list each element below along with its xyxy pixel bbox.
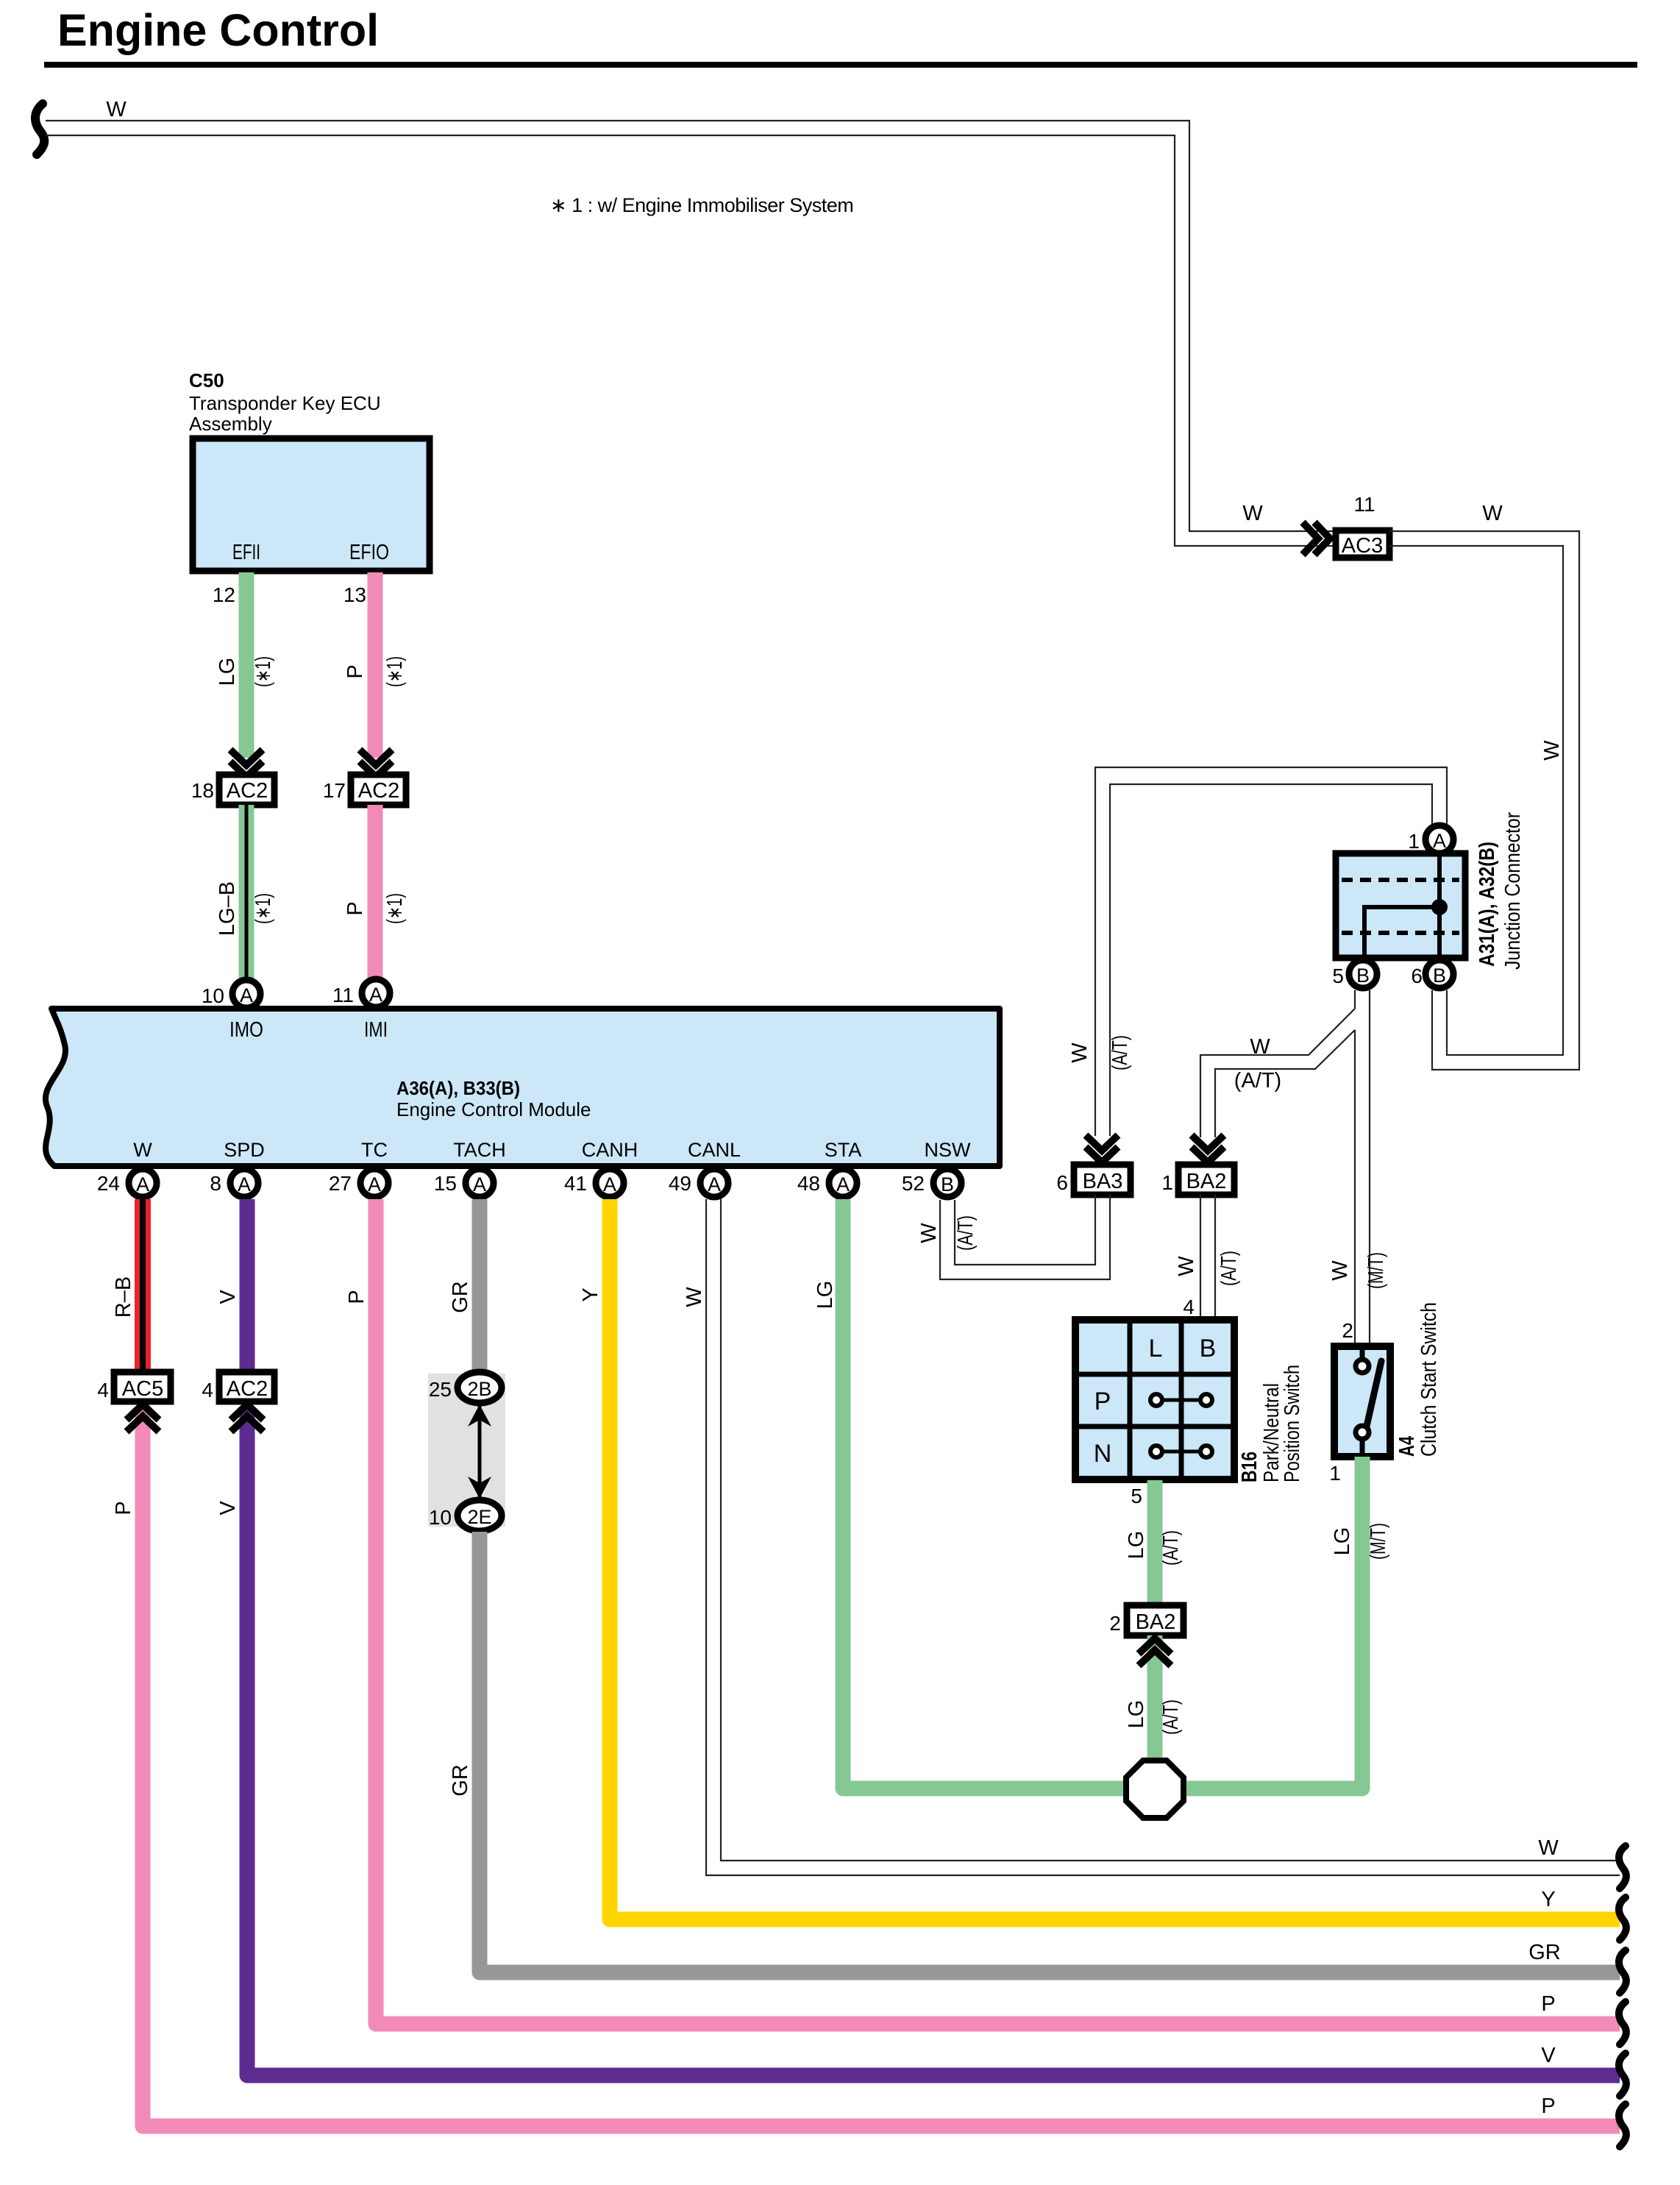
svg-text:C50: C50 — [189, 369, 224, 391]
B16 contact N row — [1150, 1446, 1212, 1457]
break squiggle on bottom Y wire — [1619, 1897, 1626, 1940]
connector AC2 (pin 4) — [219, 1372, 274, 1401]
svg-text:48: 48 — [797, 1172, 820, 1195]
svg-text:A: A — [1433, 830, 1446, 852]
svg-text:LG: LG — [814, 1281, 837, 1310]
svg-text:W: W — [1482, 502, 1503, 525]
svg-text:A36(A), B33(B): A36(A), B33(B) — [396, 1077, 520, 1099]
chevron into AC2 (pin 17) — [360, 750, 392, 777]
svg-text:(A/T): (A/T) — [1108, 1035, 1132, 1070]
svg-text:W: W — [133, 1139, 152, 1161]
svg-text:Position Switch: Position Switch — [1281, 1365, 1304, 1482]
svg-text:2: 2 — [1109, 1612, 1121, 1635]
instrument panel junction block shading — [428, 1374, 505, 1527]
junction connector internal junction dot — [1431, 899, 1448, 915]
svg-text:Clutch Start Switch: Clutch Start Switch — [1417, 1302, 1441, 1457]
svg-text:EFIO: EFIO — [349, 541, 389, 564]
wire W: branch from 5B drop to BA2 (lower line) — [1215, 1030, 1355, 1137]
connector AC2 (pin 17) — [351, 775, 406, 805]
ECM pin 24A circle — [129, 1169, 157, 1197]
svg-text:AC2: AC2 — [227, 779, 268, 803]
svg-text:BA3: BA3 — [1083, 1170, 1123, 1193]
svg-text:LG–B: LG–B — [216, 881, 239, 936]
svg-text:A: A — [369, 984, 382, 1006]
svg-text:27: 27 — [329, 1172, 352, 1195]
svg-text:LG: LG — [216, 658, 239, 686]
wire W: AC3 to junction 6B (inner line) — [1389, 546, 1563, 1055]
chevron out of AC2 (pin 4) — [231, 1404, 263, 1432]
svg-text:W: W — [1242, 502, 1263, 525]
wire R-B from ECM pin 24 to AC5 (red) — [135, 1199, 151, 1371]
chevron out of AC5 — [127, 1404, 159, 1432]
svg-text:Transponder Key ECU: Transponder Key ECU — [189, 392, 381, 414]
wire W: AC3 to junction 6B (outer line) — [1389, 531, 1579, 1070]
wire LG from ECM pin 48 (STA) to octagon splice — [843, 1199, 1125, 1788]
svg-text:W: W — [1538, 1836, 1559, 1860]
C50 Transponder Key ECU box — [193, 438, 430, 571]
svg-text:(∗1): (∗1) — [252, 656, 275, 687]
ECM pin 15A circle — [466, 1169, 494, 1197]
svg-text:(∗1): (∗1) — [252, 893, 275, 924]
ECM pin 52B circle — [933, 1169, 961, 1197]
svg-text:8: 8 — [210, 1172, 221, 1195]
svg-text:W: W — [1250, 1035, 1270, 1059]
svg-text:IMI: IMI — [364, 1018, 388, 1042]
chevron into AC3 — [1303, 522, 1330, 555]
svg-text:P: P — [112, 1501, 135, 1515]
svg-text:(A/T): (A/T) — [954, 1215, 978, 1251]
svg-text:4: 4 — [1183, 1296, 1195, 1318]
svg-text:A: A — [136, 1173, 149, 1195]
svg-text:N: N — [1094, 1440, 1112, 1468]
svg-text:4: 4 — [202, 1379, 213, 1401]
svg-text:P: P — [1541, 2095, 1555, 2118]
svg-text:11: 11 — [332, 984, 354, 1006]
wire W from ECM pin 49 (CANL) to bottom edge (inner line) — [721, 1199, 1620, 1861]
connector AC3 — [1336, 530, 1389, 558]
svg-text:(A/T): (A/T) — [1159, 1699, 1183, 1735]
svg-text:CANH: CANH — [582, 1139, 638, 1161]
wire P from EFIO pin 13 — [368, 572, 383, 758]
ECM pin 10A circle — [232, 980, 260, 1008]
svg-text:B: B — [1433, 964, 1446, 987]
break squiggle on bottom P (TC) wire — [1619, 2002, 1626, 2044]
svg-text:10: 10 — [429, 1506, 452, 1529]
svg-text:10: 10 — [202, 984, 224, 1007]
wire W: battery feed run to AC3 (inner line) — [46, 135, 1334, 546]
svg-text:Y: Y — [1541, 1888, 1555, 1911]
svg-text:52: 52 — [902, 1172, 925, 1195]
wire V from AC2 to bottom edge — [247, 1410, 1620, 2075]
svg-text:18: 18 — [191, 779, 214, 802]
svg-text:AC5: AC5 — [122, 1377, 163, 1401]
svg-text:W: W — [1540, 740, 1564, 761]
wire W: BA2 to B16 pin 4 (left line) — [1200, 1195, 1201, 1320]
ECM pin 8A circle — [230, 1169, 258, 1197]
svg-text:TACH: TACH — [453, 1139, 506, 1161]
svg-text:A: A — [473, 1173, 486, 1195]
svg-text:V: V — [1541, 2044, 1556, 2067]
wire LG from B16 pin 5 to BA2 — [1147, 1480, 1163, 1605]
connector BA2 (lower) — [1127, 1605, 1184, 1635]
connector AC2 (pin 18) — [219, 775, 274, 805]
svg-text:GR: GR — [1528, 1941, 1561, 1964]
B16 contact P row — [1150, 1394, 1212, 1406]
svg-text:B: B — [1356, 964, 1370, 987]
connector BA2 (upper) — [1178, 1165, 1234, 1195]
wire W: junction 5B down to clutch switch pin 2 (right line) — [1369, 990, 1370, 1345]
svg-text:6: 6 — [1056, 1171, 1068, 1194]
svg-text:12: 12 — [213, 583, 235, 606]
wire GR from 2E to bottom edge — [480, 1532, 1620, 1972]
wire W: junction 1A to BA3 (inner line) — [1110, 784, 1432, 1136]
break squiggle on bottom W wire — [1619, 1846, 1626, 1889]
arrowhead up into 2B — [468, 1404, 491, 1427]
svg-text:W: W — [1068, 1042, 1092, 1063]
svg-text:5: 5 — [1131, 1485, 1142, 1507]
svg-text:L: L — [1149, 1335, 1163, 1362]
svg-text:Y: Y — [579, 1287, 602, 1301]
wire LG from EFII pin 12 — [239, 572, 255, 758]
ECM pin 11A circle — [362, 979, 390, 1007]
wire P from AC5 to bottom edge (pink) — [143, 1410, 1620, 2126]
svg-text:(M/T): (M/T) — [1367, 1523, 1390, 1560]
ECM A36(A),B33(B) Engine Control Module box with torn left edge — [46, 1009, 1000, 1166]
svg-text:∗ 1 : w/ Engine Immobiliser Sy: ∗ 1 : w/ Engine Immobiliser System — [550, 194, 853, 216]
ECM pin 48A circle — [829, 1169, 857, 1197]
wire LG from A4 pin 1 to octagon splice — [1184, 1457, 1362, 1788]
svg-text:A: A — [603, 1173, 616, 1195]
svg-text:Assembly: Assembly — [189, 413, 272, 435]
svg-text:2E: 2E — [467, 1506, 491, 1528]
wire LG from BA2 (lower) to octagon splice — [1147, 1635, 1163, 1762]
svg-text:GR: GR — [449, 1281, 472, 1313]
svg-text:(A/T): (A/T) — [1159, 1530, 1183, 1566]
connector oval 2E — [458, 1500, 502, 1531]
wire W: junction 1A to BA3 (outer line) — [1095, 767, 1447, 1136]
svg-text:5: 5 — [1332, 964, 1344, 987]
svg-text:AC2: AC2 — [227, 1377, 268, 1401]
wire W: BA3 to ECM pin 52 (inner line) — [955, 1195, 1095, 1265]
wire V from ECM pin 8 to AC2 (violet) — [240, 1199, 255, 1371]
svg-text:Junction Connector: Junction Connector — [1501, 812, 1525, 970]
arrow link 2B to 2E shaft — [478, 1404, 482, 1499]
svg-text:1: 1 — [1329, 1462, 1341, 1485]
junction pin 6B circle — [1425, 960, 1453, 988]
svg-text:25: 25 — [429, 1378, 452, 1401]
wire W (top) break squiggle — [35, 104, 44, 154]
ECM pin 49A circle — [700, 1169, 728, 1197]
arrowhead down into 2E — [468, 1477, 491, 1499]
chevron out of BA2 (lower) — [1139, 1638, 1171, 1666]
svg-text:2B: 2B — [467, 1378, 491, 1400]
svg-text:6: 6 — [1411, 964, 1423, 987]
svg-text:IMO: IMO — [229, 1018, 263, 1042]
svg-text:15: 15 — [434, 1172, 457, 1195]
svg-text:GR: GR — [449, 1764, 472, 1797]
wire W: BA3 to ECM pin 52 (outer line) — [940, 1195, 1110, 1279]
svg-text:A31(A), A32(B): A31(A), A32(B) — [1476, 842, 1499, 967]
junction connector A31(A),A32(B) body — [1336, 853, 1465, 958]
svg-text:A4: A4 — [1395, 1436, 1419, 1457]
svg-text:STA: STA — [825, 1139, 862, 1161]
chevron into BA3 — [1086, 1135, 1118, 1162]
junction connector internal branch to 5B — [1364, 907, 1439, 956]
svg-text:(∗1): (∗1) — [383, 656, 407, 687]
B16 Park/Neutral Position Switch body — [1075, 1320, 1234, 1479]
svg-text:24: 24 — [97, 1172, 120, 1195]
connector oval 2B — [458, 1372, 502, 1403]
svg-text:TC: TC — [361, 1139, 388, 1161]
svg-text:41: 41 — [564, 1172, 587, 1195]
svg-text:P: P — [344, 664, 367, 678]
svg-text:R–B: R–B — [112, 1276, 135, 1318]
wire LG-B black stripe — [245, 805, 249, 980]
svg-text:BA2: BA2 — [1136, 1610, 1176, 1634]
chevron into AC2 (pin 18) — [230, 750, 263, 777]
svg-text:AC2: AC2 — [358, 779, 399, 803]
connector BA3 — [1074, 1165, 1131, 1195]
wire P from ECM pin 27 (TC) to bottom edge — [376, 1199, 1620, 2024]
svg-text:Engine Control Module: Engine Control Module — [396, 1098, 591, 1120]
svg-text:A: A — [836, 1173, 850, 1195]
svg-text:W: W — [683, 1287, 706, 1307]
svg-text:V: V — [216, 1501, 240, 1516]
svg-text:V: V — [216, 1290, 240, 1304]
svg-text:P: P — [345, 1290, 369, 1304]
svg-text:NSW: NSW — [925, 1139, 972, 1161]
svg-text:2: 2 — [1342, 1319, 1353, 1342]
break squiggle on bottom P wire — [1619, 2104, 1626, 2147]
svg-text:(A/T): (A/T) — [1234, 1069, 1281, 1092]
wire W from ECM pin 49 (CANL) to bottom edge (outer line) — [706, 1199, 1620, 1875]
svg-text:A: A — [240, 984, 253, 1006]
octagon splice junction — [1126, 1761, 1184, 1818]
svg-text:SPD: SPD — [224, 1139, 265, 1161]
svg-text:BA2: BA2 — [1186, 1170, 1227, 1193]
svg-text:Engine Control: Engine Control — [57, 5, 379, 55]
svg-text:P: P — [344, 901, 367, 915]
svg-text:P: P — [1541, 1992, 1555, 2016]
junction pin 1A circle — [1425, 825, 1453, 853]
svg-text:LG: LG — [1125, 1700, 1148, 1729]
ECM pin 27A circle — [360, 1169, 388, 1197]
svg-text:B: B — [1200, 1335, 1217, 1362]
svg-text:B: B — [941, 1173, 954, 1195]
svg-text:W: W — [106, 98, 127, 121]
svg-text:17: 17 — [323, 779, 346, 802]
svg-text:LG: LG — [1125, 1531, 1148, 1560]
svg-text:B16: B16 — [1238, 1452, 1261, 1482]
junction connector internal bus 1A-6B — [1437, 855, 1442, 956]
svg-text:AC3: AC3 — [1342, 534, 1383, 558]
svg-text:W: W — [917, 1223, 941, 1243]
svg-text:1: 1 — [1161, 1171, 1173, 1194]
wire Y from ECM pin 41 (CANH) to bottom edge — [610, 1199, 1620, 1919]
svg-text:4: 4 — [97, 1379, 109, 1401]
svg-text:1: 1 — [1408, 830, 1420, 853]
A4 Clutch Start Switch body — [1334, 1346, 1390, 1457]
wire P from AC2 to ECM pin 11 — [368, 805, 383, 978]
svg-text:(∗1): (∗1) — [383, 893, 407, 924]
wire R-B black stripe — [140, 1199, 146, 1371]
svg-text:11: 11 — [1353, 493, 1375, 516]
ECM pin 41A circle — [596, 1169, 624, 1197]
chevron into BA2 (upper) — [1192, 1135, 1224, 1162]
svg-text:A: A — [238, 1173, 251, 1195]
svg-text:13: 13 — [344, 583, 366, 606]
title underline — [44, 62, 1637, 68]
connector AC5 — [114, 1372, 171, 1401]
svg-text:(M/T): (M/T) — [1364, 1252, 1388, 1289]
break squiggle on bottom GR wire — [1619, 1950, 1626, 1993]
svg-text:P: P — [1095, 1388, 1111, 1415]
wire W: battery feed run to AC3 (outer line) — [46, 121, 1334, 531]
svg-text:EFII: EFII — [232, 541, 260, 564]
svg-text:CANL: CANL — [688, 1139, 741, 1161]
junction pin 5B circle — [1349, 960, 1377, 988]
wire W: BA2 to B16 pin 4 (right line) — [1214, 1195, 1216, 1320]
wire LG-B from AC2 to ECM pin 10 — [239, 805, 255, 980]
wire GR from ECM pin 15 (TACH) to 2B — [472, 1199, 488, 1371]
wire W: branch from 5B drop to BA2 (upper line) — [1200, 1009, 1355, 1137]
svg-text:W: W — [1328, 1260, 1352, 1281]
svg-text:(A/T): (A/T) — [1217, 1251, 1241, 1286]
svg-text:49: 49 — [669, 1172, 691, 1195]
break squiggle on bottom V wire — [1619, 2053, 1626, 2096]
wire W: junction 5B down to clutch switch pin 2 (left line, with branch gap) — [1354, 990, 1356, 1345]
svg-text:W: W — [1175, 1256, 1198, 1276]
svg-text:A: A — [368, 1173, 381, 1195]
svg-text:A: A — [708, 1173, 721, 1195]
svg-text:LG: LG — [1331, 1527, 1354, 1556]
